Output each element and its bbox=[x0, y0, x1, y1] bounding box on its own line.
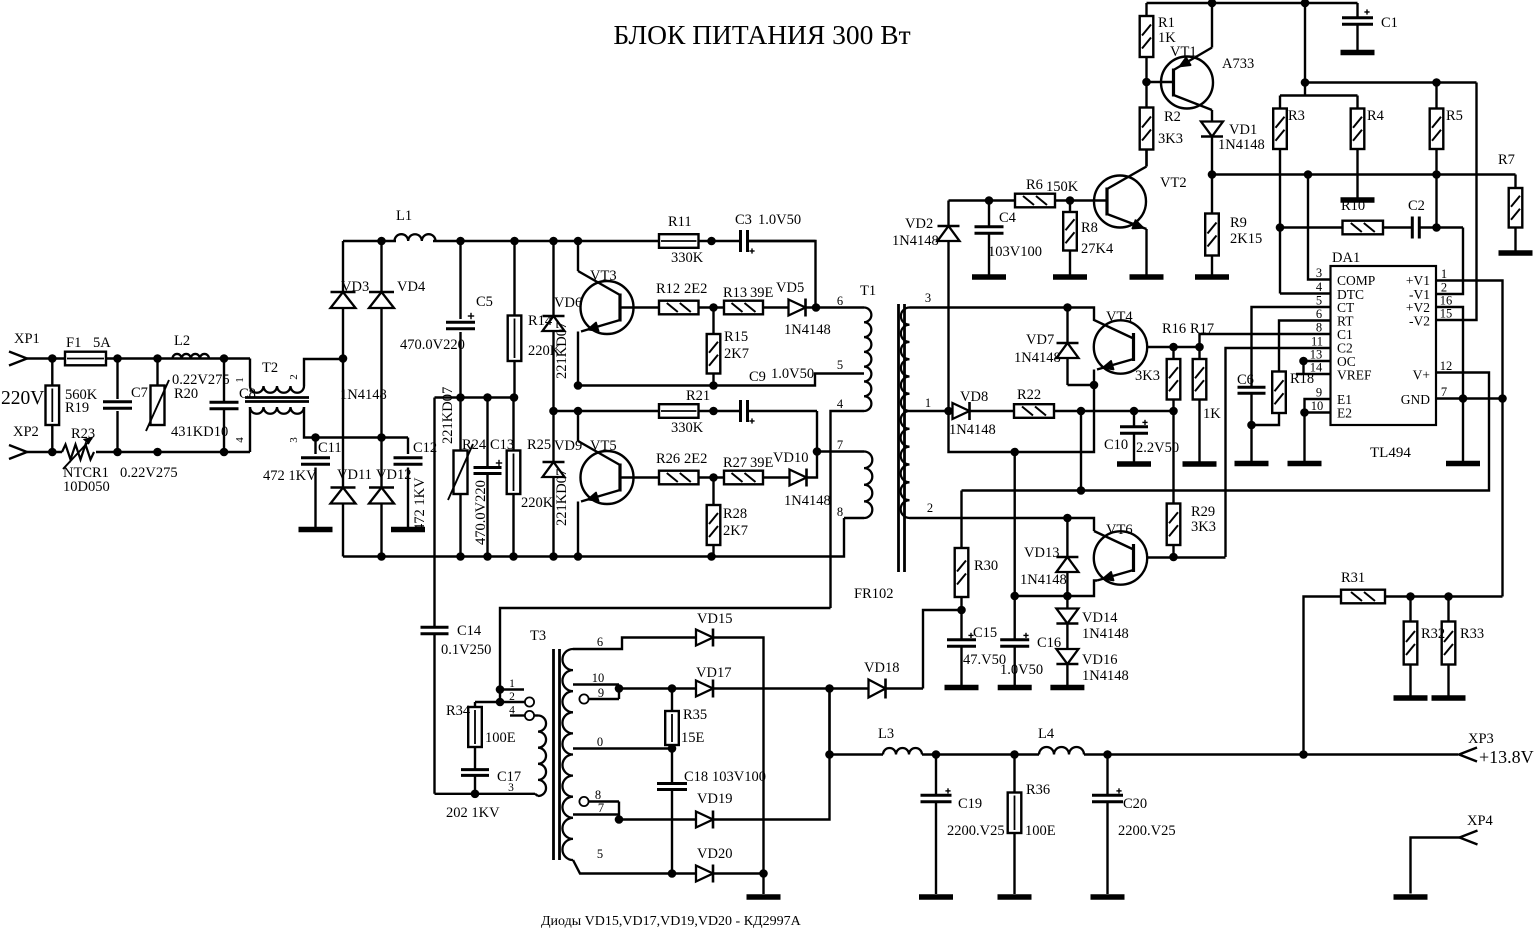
svg-text:T3: T3 bbox=[530, 628, 546, 644]
capacitor C17 bbox=[474, 747, 476, 769]
capacitor C8 bbox=[223, 359, 225, 403]
node R16 top bbox=[1169, 343, 1178, 352]
diode VD14 1N4148 bbox=[1056, 609, 1078, 624]
svg-text:39E: 39E bbox=[750, 455, 774, 471]
node C5 mid bbox=[456, 393, 465, 402]
node VD17 VD19 bbox=[825, 684, 834, 693]
wire T2 pin4 bbox=[249, 407, 251, 452]
ground VD16 bbox=[1050, 685, 1084, 691]
svg-text:R11: R11 bbox=[668, 214, 692, 230]
transistor VT1 A733 bbox=[1161, 57, 1213, 109]
svg-text:R3: R3 bbox=[1288, 108, 1305, 124]
wire COMP line bbox=[1212, 173, 1516, 175]
svg-text:L3: L3 bbox=[878, 726, 894, 742]
svg-text:C18: C18 bbox=[684, 769, 708, 785]
svg-text:1N4148: 1N4148 bbox=[784, 493, 831, 509]
resistor R14 220K bbox=[513, 241, 515, 316]
ground C19 bbox=[919, 894, 953, 900]
resistor R8 27K4 bbox=[1069, 201, 1071, 213]
svg-text:XP2: XP2 bbox=[13, 424, 39, 440]
svg-text:103V100: 103V100 bbox=[988, 244, 1042, 260]
resistor R9 2K15 bbox=[1205, 214, 1219, 256]
svg-text:11: 11 bbox=[1311, 335, 1323, 349]
inductor L3 bbox=[883, 748, 922, 755]
diode VD16 1N4148 bbox=[1056, 649, 1078, 664]
node VD12 bottom bbox=[377, 552, 386, 561]
wire DC- rail bbox=[343, 518, 844, 557]
node pin7 junction bbox=[813, 447, 822, 456]
svg-text:VREF: VREF bbox=[1337, 368, 1372, 383]
svg-text:6: 6 bbox=[1316, 307, 1322, 321]
svg-text:2: 2 bbox=[1441, 281, 1447, 295]
ground R33 bbox=[1432, 695, 1466, 701]
wire VD4 column bbox=[380, 241, 382, 292]
svg-text:VT6: VT6 bbox=[1106, 522, 1133, 538]
svg-text:R29: R29 bbox=[1191, 504, 1215, 520]
wire T3 tap10 bbox=[573, 683, 619, 685]
svg-text:1.0V50: 1.0V50 bbox=[771, 366, 814, 382]
node C3 drop bbox=[812, 303, 821, 312]
wire VT3 emitter line to pin5 bbox=[578, 374, 864, 386]
capacitor C15 47.V50 bbox=[960, 610, 962, 640]
node R5 mid bbox=[1432, 170, 1441, 179]
svg-text:VD2: VD2 bbox=[905, 216, 933, 232]
diode VD2 1N4148 bbox=[947, 201, 949, 227]
svg-text:C8: C8 bbox=[239, 386, 256, 402]
wire top rail bbox=[1147, 2, 1358, 4]
svg-text:VD19: VD19 bbox=[697, 791, 732, 807]
wire T3 tap8 bbox=[589, 800, 620, 802]
node C10 top bbox=[1130, 407, 1139, 416]
wire R10 line bbox=[1280, 226, 1343, 228]
wire VD10 branch bbox=[807, 452, 818, 478]
ground R4 bbox=[1341, 197, 1375, 203]
svg-text:470.0V220: 470.0V220 bbox=[473, 480, 489, 545]
svg-text:C9: C9 bbox=[749, 369, 766, 385]
svg-text:221KD07: 221KD07 bbox=[554, 469, 570, 526]
svg-text:R8: R8 bbox=[1081, 220, 1098, 236]
node R28 bottom bbox=[707, 552, 716, 561]
svg-text:VT5: VT5 bbox=[590, 438, 617, 454]
pin 14 VREF wire bbox=[1296, 373, 1331, 375]
wire pin2 riser bbox=[1436, 228, 1463, 295]
svg-text:F1: F1 bbox=[66, 335, 81, 351]
svg-text:0.1V250: 0.1V250 bbox=[441, 642, 491, 658]
pin 7 GND wire bbox=[1436, 397, 1503, 399]
node tap7 bbox=[615, 815, 624, 824]
svg-text:L4: L4 bbox=[1038, 726, 1055, 742]
node tap10 bbox=[615, 684, 624, 693]
wire L4 to XP3 bbox=[1084, 753, 1458, 755]
wire T3 pin4 stub bbox=[510, 714, 525, 716]
ground C1 bbox=[1341, 50, 1375, 56]
ground VT2 bbox=[1130, 274, 1164, 280]
svg-text:4: 4 bbox=[509, 705, 515, 717]
wire T1 tap3 line bbox=[910, 306, 1068, 308]
wire VT2 collector bbox=[1145, 150, 1147, 167]
svg-text:R27: R27 bbox=[723, 455, 747, 471]
wire T1 pin1 stub bbox=[910, 410, 949, 412]
svg-text:202 1KV: 202 1KV bbox=[446, 805, 500, 821]
svg-text:V+: V+ bbox=[1413, 368, 1430, 383]
ground R36 bbox=[998, 894, 1032, 900]
connector XP3 +13.8V bbox=[1459, 748, 1477, 762]
svg-text:VD7: VD7 bbox=[1026, 332, 1054, 348]
node T1 pin1 VD2 R22 bbox=[944, 407, 953, 416]
svg-text:5: 5 bbox=[837, 358, 843, 372]
node C4 top bbox=[985, 196, 994, 205]
node rail 1305 bbox=[1301, 0, 1310, 7]
node VT5 emitter bbox=[574, 552, 583, 561]
svg-text:E2: E2 bbox=[1337, 406, 1352, 421]
svg-text:R34: R34 bbox=[446, 703, 471, 719]
wire VD19 riser bbox=[713, 689, 830, 820]
node R16 bottom bbox=[1169, 407, 1178, 416]
node row2 VT5 bbox=[574, 407, 583, 416]
node GND pin bbox=[1459, 394, 1468, 403]
node R35 top bbox=[668, 684, 677, 693]
svg-text:1: 1 bbox=[234, 377, 246, 383]
svg-text:13: 13 bbox=[1310, 348, 1323, 362]
node VD6 row2 bbox=[549, 407, 558, 416]
node bus VD20 bbox=[759, 869, 768, 878]
node C8 top bbox=[220, 354, 229, 363]
op-amp U DA1 TL494 box bbox=[1331, 266, 1437, 425]
node C7 top bbox=[113, 354, 122, 363]
resistor R16 3K3 bbox=[1172, 347, 1174, 359]
wire XP1 line bbox=[27, 357, 65, 359]
resistor R25 220K bbox=[512, 398, 514, 451]
svg-text:39E: 39E bbox=[750, 285, 774, 301]
wire DC+ rail bbox=[343, 240, 396, 242]
wire VT1 collector to VD1 bbox=[1211, 110, 1213, 122]
svg-text:R36: R36 bbox=[1026, 782, 1050, 798]
pin 10 E2 wire bbox=[1305, 411, 1331, 413]
capacitor C14 0.1V250 bbox=[433, 398, 435, 628]
node VD1 R9 bbox=[1208, 170, 1217, 179]
diode VD7 1N4148 bbox=[1066, 308, 1068, 344]
svg-text:1N4148: 1N4148 bbox=[1082, 626, 1129, 642]
svg-text:4: 4 bbox=[1316, 280, 1323, 294]
transistor VT5 bbox=[620, 476, 659, 478]
wire VT1 emitter to rail bbox=[1211, 3, 1213, 48]
diode VD18 FR102 bbox=[869, 680, 886, 698]
wire pin3 riser bbox=[1308, 175, 1331, 280]
resistor R27 39E bbox=[724, 471, 763, 485]
wire R27-R26 bbox=[699, 476, 725, 478]
svg-text:3: 3 bbox=[508, 782, 514, 794]
node VT4 emitter VD7 bbox=[1090, 381, 1099, 390]
node C13 bottom bbox=[483, 552, 492, 561]
wire T2 pin1 bbox=[249, 359, 251, 387]
wire XP4 to ground bbox=[1411, 838, 1460, 894]
thermistor R23 NTCR1 10D050 bbox=[62, 445, 94, 460]
capacitor C2 bbox=[1411, 217, 1414, 239]
pin 12 V+ wire bbox=[962, 373, 1490, 491]
diode VD20 KD2997A bbox=[696, 866, 713, 882]
capacitor C4 103V100 bbox=[988, 201, 990, 227]
svg-text:5A: 5A bbox=[93, 335, 111, 351]
node COMP vert bbox=[1304, 170, 1313, 179]
T1 primary winding lower bbox=[864, 452, 872, 519]
node C13 top bbox=[483, 393, 492, 402]
svg-text:1: 1 bbox=[1441, 267, 1447, 281]
wire T3 tap7 bbox=[573, 813, 619, 815]
svg-text:R22: R22 bbox=[1017, 387, 1041, 403]
node VT3 emitter bbox=[574, 381, 583, 390]
svg-text:1N4148: 1N4148 bbox=[1218, 137, 1265, 153]
resistor R28 2K7 bbox=[712, 478, 714, 506]
wire rail to C1 bbox=[1356, 3, 1358, 18]
svg-text:R5: R5 bbox=[1446, 108, 1463, 124]
svg-text:14: 14 bbox=[1310, 361, 1323, 375]
node VD13 emitter bbox=[1063, 592, 1072, 601]
node R30 bottom bbox=[957, 606, 966, 615]
svg-text:C16: C16 bbox=[1037, 635, 1061, 651]
connector XP2 bbox=[9, 445, 27, 459]
wire 1305 vertical bbox=[1304, 3, 1306, 96]
svg-text:C14: C14 bbox=[457, 623, 482, 639]
svg-text:C20: C20 bbox=[1123, 796, 1147, 812]
wire out riser to L3 bbox=[830, 689, 884, 755]
wire VT2 emitter bbox=[1145, 229, 1147, 275]
wire C9 to pin7 bbox=[816, 411, 818, 452]
svg-text:C1: C1 bbox=[1381, 15, 1398, 31]
svg-text:T1: T1 bbox=[860, 283, 876, 299]
svg-text:C3: C3 bbox=[735, 212, 752, 228]
T1 core bbox=[897, 304, 900, 572]
svg-text:1.0V50: 1.0V50 bbox=[758, 212, 801, 228]
wire T3 tap5 bbox=[573, 860, 696, 874]
resistor R30 bbox=[960, 491, 962, 549]
resistor R22 bbox=[1014, 404, 1054, 418]
resistor R36 100E bbox=[1013, 755, 1015, 793]
ground C15 bbox=[945, 685, 979, 691]
resistor R11 330K bbox=[659, 234, 699, 248]
wire VD15 to bus bbox=[713, 638, 764, 874]
node C17 bottom bbox=[471, 790, 480, 799]
diode VD9 221KD07 bbox=[543, 462, 565, 477]
capacitor C13 470.0V220 bbox=[486, 398, 488, 468]
pin 16 +V2 wire bbox=[1436, 307, 1463, 399]
svg-text:3: 3 bbox=[1316, 266, 1322, 280]
svg-text:-V2: -V2 bbox=[1409, 314, 1430, 329]
wire 1081 vertical bbox=[1080, 411, 1082, 491]
node VD13 top bbox=[1063, 514, 1072, 523]
resistor R12 2E2 bbox=[659, 301, 699, 315]
T2 top winding bbox=[250, 386, 304, 393]
resistor R33 bbox=[1447, 597, 1449, 622]
svg-text:R30: R30 bbox=[974, 558, 998, 574]
node R20 bottom bbox=[153, 448, 162, 457]
svg-text:R20: R20 bbox=[174, 386, 198, 402]
wire R31 right bbox=[1385, 595, 1503, 597]
node bridge AC1 bbox=[339, 354, 348, 363]
ground C4 bbox=[972, 274, 1006, 280]
T1 primary winding upper bbox=[864, 308, 871, 412]
svg-text:221KD07: 221KD07 bbox=[554, 322, 570, 379]
capacitor C9 1.0V50 bbox=[739, 400, 742, 422]
node V+ 1081 bbox=[1077, 486, 1086, 495]
capacitor C12 472 1KV bbox=[407, 438, 409, 455]
node R14 R25 bbox=[510, 393, 519, 402]
pin 15 -V2 wire bbox=[1436, 83, 1477, 321]
node R5 top bbox=[1432, 78, 1441, 87]
svg-text:VD3: VD3 bbox=[341, 279, 369, 295]
inductor L2 bbox=[173, 354, 210, 359]
ground R8 bbox=[1053, 274, 1087, 280]
ground C6 bbox=[1235, 461, 1269, 467]
transistor VT3 bbox=[577, 241, 579, 271]
wire VD2 top line bbox=[949, 199, 1016, 201]
svg-text:R2: R2 bbox=[1164, 109, 1181, 125]
svg-text:1N4148: 1N4148 bbox=[1014, 350, 1061, 366]
svg-text:R24: R24 bbox=[462, 437, 487, 453]
svg-text:1N4148: 1N4148 bbox=[1020, 572, 1067, 588]
svg-text:470.0V220: 470.0V220 bbox=[400, 337, 465, 353]
svg-text:XP1: XP1 bbox=[14, 331, 40, 347]
svg-text:VD17: VD17 bbox=[696, 665, 731, 681]
wire R22 to R16 bbox=[1054, 410, 1174, 412]
svg-text:3K3: 3K3 bbox=[1191, 519, 1216, 535]
svg-text:C7: C7 bbox=[131, 385, 148, 401]
connector XP1 bbox=[9, 352, 27, 366]
wire T3 tap6 bbox=[573, 638, 696, 650]
svg-text:1N4148: 1N4148 bbox=[340, 387, 387, 403]
svg-text:TL494: TL494 bbox=[1370, 445, 1411, 461]
capacitor C1 bbox=[1342, 16, 1373, 19]
ground R7 bbox=[1499, 250, 1533, 256]
svg-text:6: 6 bbox=[837, 294, 843, 308]
resistor R15 2K7 bbox=[712, 308, 714, 335]
svg-text:VD14: VD14 bbox=[1082, 610, 1118, 626]
T3 primary winding bbox=[538, 716, 546, 797]
svg-text:VD4: VD4 bbox=[397, 279, 426, 295]
svg-text:R21: R21 bbox=[686, 388, 710, 404]
svg-text:8: 8 bbox=[595, 788, 601, 802]
diode VD1 1N4148 bbox=[1201, 122, 1223, 137]
svg-text:БЛОК ПИТАНИЯ 300 Вт: БЛОК ПИТАНИЯ 300 Вт bbox=[613, 19, 910, 50]
wire VD17 line bbox=[619, 687, 696, 689]
ground R17 bbox=[1183, 461, 1217, 467]
wire R10-C2 bbox=[1383, 226, 1412, 228]
svg-text:R28: R28 bbox=[723, 506, 747, 522]
T3 core bbox=[552, 649, 555, 860]
wire T3 tap0 bbox=[573, 747, 672, 749]
pin 13 OC wire bbox=[1304, 360, 1331, 362]
wire T1 pin4 stub bbox=[831, 411, 865, 608]
capacitor C18 103V100 bbox=[657, 782, 687, 785]
resistor R6 150K bbox=[1015, 194, 1055, 208]
wire T2 pin2 bbox=[304, 359, 342, 386]
node emitter tie top bbox=[1010, 448, 1019, 457]
ground E1E2 bbox=[1288, 461, 1322, 467]
diode VD4 bbox=[369, 292, 394, 308]
node C6 R18 bbox=[1247, 421, 1256, 430]
resistor R13 39E bbox=[724, 301, 763, 315]
node row2 R21 bbox=[709, 407, 718, 416]
T1 secondary winding upper bbox=[901, 308, 910, 412]
svg-text:VD6: VD6 bbox=[554, 295, 582, 311]
svg-text:2K7: 2K7 bbox=[723, 523, 748, 539]
wire R13-VD5 bbox=[763, 306, 789, 308]
wire R12-R13 bbox=[699, 306, 725, 308]
svg-text:R16: R16 bbox=[1162, 321, 1186, 337]
pin 11 C2 wire bbox=[1226, 348, 1331, 557]
wire VD1 to R9 bbox=[1211, 137, 1213, 214]
svg-text:R4: R4 bbox=[1367, 108, 1385, 124]
wire C2 to pin2 bbox=[1419, 226, 1463, 228]
svg-text:9: 9 bbox=[598, 686, 604, 700]
wire VD5 to T1 pin6 bbox=[806, 306, 865, 308]
svg-text:221KD07: 221KD07 bbox=[440, 387, 456, 444]
wire VT6 emitter bbox=[1015, 581, 1097, 597]
svg-text:3K3: 3K3 bbox=[1135, 368, 1160, 384]
node R19-XP2 bbox=[48, 448, 57, 457]
ground R9 bbox=[1195, 274, 1229, 280]
diode VD3 bbox=[331, 292, 356, 308]
wire GND to bar bbox=[1462, 399, 1464, 462]
fuse F1 bbox=[65, 352, 106, 366]
wire filter top line bbox=[435, 396, 515, 398]
svg-text:1N4148: 1N4148 bbox=[949, 422, 996, 438]
svg-text:R31: R31 bbox=[1341, 570, 1365, 586]
node VT1 rail bbox=[1208, 0, 1217, 7]
capacitor C3 1.0V50 bbox=[739, 230, 742, 252]
node C20 top bbox=[1103, 750, 1112, 759]
svg-text:VT2: VT2 bbox=[1160, 175, 1187, 191]
svg-text:VD16: VD16 bbox=[1082, 652, 1117, 668]
capacitor C5 470.0V220 bbox=[459, 241, 461, 319]
node pin13 bbox=[1299, 357, 1308, 366]
wire VD20 to bus bbox=[713, 872, 764, 874]
wire R6 to VT2 base bbox=[1055, 199, 1107, 201]
svg-text:47.V50: 47.V50 bbox=[963, 652, 1006, 668]
wire 82 line bbox=[1305, 81, 1477, 83]
resistor R21 330K bbox=[659, 404, 699, 418]
svg-text:DA1: DA1 bbox=[1332, 250, 1360, 266]
wire pin4 riser bbox=[1280, 292, 1331, 294]
diode VD19 KD2997A bbox=[696, 812, 713, 828]
svg-text:10: 10 bbox=[1311, 399, 1324, 413]
node +V1 GND line bbox=[1498, 394, 1507, 403]
svg-text:VD1: VD1 bbox=[1229, 122, 1257, 138]
diode VD10 1N4148 bbox=[790, 470, 807, 486]
svg-text:2K15: 2K15 bbox=[1230, 231, 1262, 247]
wire VD10-R27 bbox=[763, 476, 790, 478]
svg-text:2E2: 2E2 bbox=[684, 281, 707, 297]
svg-text:3: 3 bbox=[925, 291, 931, 305]
inductor L4 bbox=[1039, 747, 1084, 754]
wire C3 to pin6 bbox=[748, 241, 816, 308]
svg-text:472 1KV: 472 1KV bbox=[263, 468, 317, 484]
wire R7 drop bbox=[1514, 175, 1516, 189]
svg-text:R25: R25 bbox=[527, 437, 551, 453]
capacitor C7 bbox=[116, 359, 118, 400]
svg-text:VT3: VT3 bbox=[590, 268, 617, 284]
diode VD11 bbox=[331, 488, 356, 504]
resistor R26 2E2 bbox=[659, 471, 699, 485]
svg-text:8: 8 bbox=[837, 505, 843, 519]
resistor R1 1K bbox=[1145, 3, 1147, 16]
svg-text:4: 4 bbox=[837, 397, 844, 411]
wire R2 to VT2 bbox=[1145, 150, 1147, 167]
svg-text:C6: C6 bbox=[1237, 372, 1254, 388]
svg-text:2: 2 bbox=[927, 501, 933, 515]
node C19 top bbox=[932, 750, 941, 759]
svg-text:2K7: 2K7 bbox=[724, 346, 749, 362]
node E1 E2 bbox=[1300, 408, 1309, 417]
